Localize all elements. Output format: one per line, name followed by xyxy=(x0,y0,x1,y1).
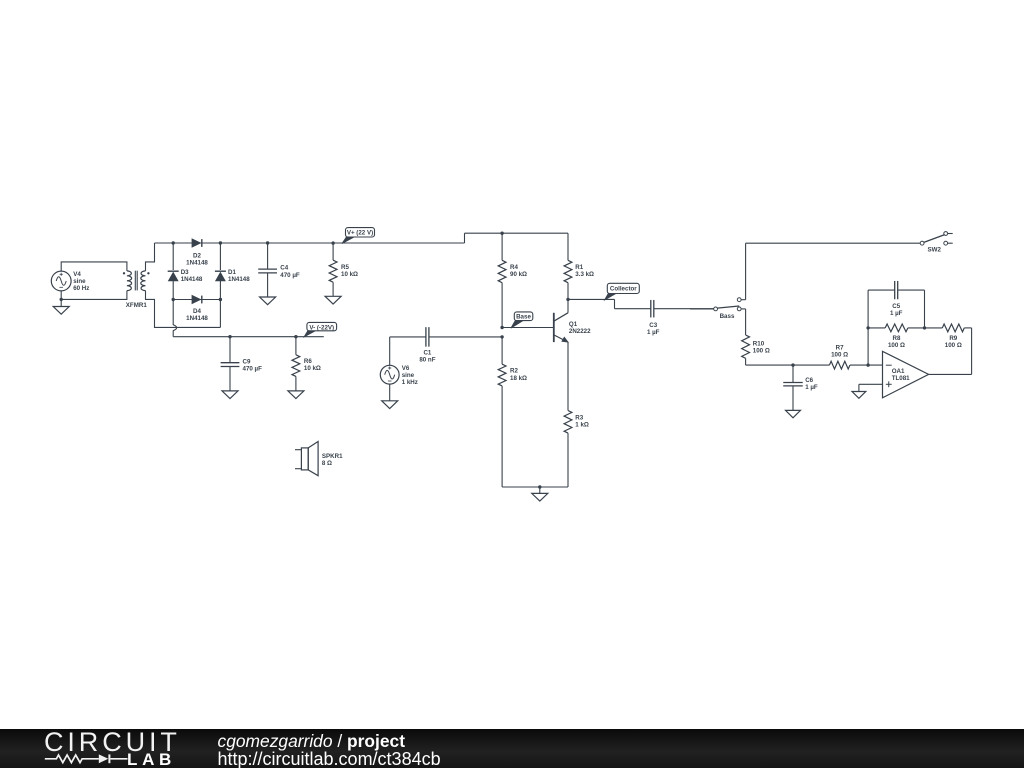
net flag Base xyxy=(511,312,533,328)
capacitor C6 1uF xyxy=(783,365,818,410)
junction dot collector node xyxy=(566,298,569,301)
svg-text:R8: R8 xyxy=(893,335,901,342)
svg-text:C5: C5 xyxy=(892,303,900,310)
svg-text:V6: V6 xyxy=(402,365,410,372)
svg-text:D4: D4 xyxy=(193,308,201,315)
svg-text:1 µF: 1 µF xyxy=(647,329,660,336)
svg-text:R10: R10 xyxy=(753,340,765,347)
svg-text:1 µF: 1 µF xyxy=(890,310,903,317)
svg-text:3.3 kΩ: 3.3 kΩ xyxy=(575,271,594,278)
svg-text:R7: R7 xyxy=(836,345,844,352)
svg-text:sine: sine xyxy=(402,372,415,379)
CircuitLab logo text xyxy=(44,727,181,758)
wire C3 to Bass switch xyxy=(654,308,714,310)
svg-text:XFMR1: XFMR1 xyxy=(126,302,148,309)
svg-text:R5: R5 xyxy=(341,264,349,271)
junction dot bottom ground node xyxy=(538,485,541,488)
capacitor C1 80nF xyxy=(419,327,435,364)
wire feedback vertical xyxy=(868,290,895,365)
wire transformer secondary bottom (line A) xyxy=(146,291,221,328)
junction dot rail-D1 branch xyxy=(219,241,222,244)
junction dot rail-R4 xyxy=(500,232,503,235)
wire D1 branch xyxy=(219,243,221,327)
svg-text:60 Hz: 60 Hz xyxy=(73,285,89,292)
svg-text:D2: D2 xyxy=(193,252,201,259)
ground at R5 xyxy=(325,296,341,304)
resistor R4 90k xyxy=(498,233,527,327)
wire Bass upper throw to SW2 xyxy=(746,243,921,300)
wire base row xyxy=(502,327,554,329)
svg-text:sine: sine xyxy=(73,278,86,285)
wire V- rail xyxy=(173,336,324,338)
wire V4 top to transformer primary xyxy=(61,262,127,271)
svg-text:R4: R4 xyxy=(510,264,518,271)
svg-text:1N4148: 1N4148 xyxy=(228,276,250,283)
wire transformer secondary top to V+ rail xyxy=(146,243,155,271)
junction dot V- rail C9 xyxy=(228,335,231,338)
wire R8 row xyxy=(868,327,885,329)
svg-text:V+ (22 V): V+ (22 V) xyxy=(347,230,373,237)
svg-text:V4: V4 xyxy=(73,271,81,278)
svg-text:10 kΩ: 10 kΩ xyxy=(341,271,358,278)
voltage source V6 xyxy=(380,365,418,386)
transistor Q1 2N2222 xyxy=(554,313,591,342)
ground at op-amp + input xyxy=(852,392,866,399)
resistor R7 100 xyxy=(829,345,882,369)
svg-text:1 kHz: 1 kHz xyxy=(402,379,418,386)
svg-text:Base: Base xyxy=(516,314,531,321)
svg-text:10 kΩ: 10 kΩ xyxy=(304,365,321,372)
svg-text:80 nF: 80 nF xyxy=(419,357,435,364)
svg-text:1 µF: 1 µF xyxy=(805,384,818,391)
username / project title xyxy=(218,731,406,752)
svg-text:SPKR1: SPKR1 xyxy=(322,453,343,460)
svg-text:18 kΩ: 18 kΩ xyxy=(510,375,527,382)
svg-text:1 kΩ: 1 kΩ xyxy=(575,422,589,429)
svg-text:R3: R3 xyxy=(575,414,583,421)
wire Q1 collector xyxy=(567,299,569,312)
resistor R8 100 xyxy=(885,324,942,349)
junction dot feedback-R8 xyxy=(866,326,869,329)
junction dot base-C1 xyxy=(500,335,503,338)
capacitor C5 1uF xyxy=(890,281,903,317)
diode D3 1N4148 xyxy=(168,269,203,283)
wire emitter bottom row xyxy=(502,486,568,488)
ground at R6 xyxy=(288,391,304,399)
svg-text:100 Ω: 100 Ω xyxy=(888,342,905,349)
wire C5 right to R8 node xyxy=(898,290,925,328)
diode D2 1N4148 xyxy=(186,239,208,266)
resistor R5 10k xyxy=(329,243,358,296)
resistor R9 100 xyxy=(942,324,971,349)
junction dot C6 tap xyxy=(791,363,794,366)
capacitor C3 1uF xyxy=(647,300,660,336)
wire R10 to R7 xyxy=(746,364,830,366)
junction dot R8-R9 node xyxy=(923,326,926,329)
capacitor C4 470uF xyxy=(258,243,300,297)
junction dot D4 row right xyxy=(219,298,222,301)
net flag V+ (22 V) xyxy=(342,228,375,244)
svg-text:D1: D1 xyxy=(228,269,236,276)
diode D1 1N4148 xyxy=(215,269,250,283)
svg-text:470 µF: 470 µF xyxy=(280,272,300,279)
svg-text:C6: C6 xyxy=(805,377,813,384)
junction dot rail-C4 xyxy=(266,241,269,244)
svg-text:D3: D3 xyxy=(181,269,189,276)
wire op-amp + input xyxy=(859,384,883,391)
diode D4 1N4148 xyxy=(186,296,208,323)
ground at V6 xyxy=(382,401,398,409)
junction dot rail-R5 xyxy=(331,241,334,244)
svg-text:100 Ω: 100 Ω xyxy=(831,352,848,359)
svg-text:470 µF: 470 µF xyxy=(243,366,263,373)
svg-text:1N4148: 1N4148 xyxy=(186,315,208,322)
svg-text:R6: R6 xyxy=(304,358,312,365)
resistor R3 1k xyxy=(564,411,589,488)
op-amp OA1 TL081 xyxy=(883,351,929,398)
wire V+ top rail xyxy=(155,233,569,243)
svg-text:SW2: SW2 xyxy=(927,246,941,253)
wire C1 to base branch xyxy=(429,336,502,338)
svg-text:C4: C4 xyxy=(280,265,288,272)
speaker SPKR1 8 ohm xyxy=(295,442,343,476)
junction dot base-R4 xyxy=(500,326,503,329)
svg-text:Collector: Collector xyxy=(610,286,637,293)
ground at C6 xyxy=(786,410,801,417)
junction dot V- rail R6 xyxy=(294,335,297,338)
logo resistor-diode icon xyxy=(0,729,220,768)
svg-text:100 Ω: 100 Ω xyxy=(945,342,962,349)
svg-text:Bass: Bass xyxy=(720,313,735,320)
wire V4 bottom to transformer primary xyxy=(61,291,127,300)
switch Bass (SPDT) xyxy=(690,298,746,320)
svg-text:Q1: Q1 xyxy=(569,321,578,328)
ground at C4 xyxy=(260,297,276,305)
svg-text:1N4148: 1N4148 xyxy=(186,259,208,266)
svg-text:OA1: OA1 xyxy=(892,368,905,375)
junction dot rail-D3 branch xyxy=(172,241,175,244)
svg-text:C3: C3 xyxy=(649,322,657,329)
net flag Collector xyxy=(605,283,640,300)
ground at Q1 emitter node xyxy=(532,487,548,501)
svg-text:R1: R1 xyxy=(575,264,583,271)
junction dot inverting input node xyxy=(866,363,869,366)
svg-text:C9: C9 xyxy=(243,359,251,366)
wire D3 branch xyxy=(173,243,177,337)
wire R9 to output xyxy=(971,328,973,375)
wire V6 to ground xyxy=(389,384,391,401)
svg-text:V- (-22V): V- (-22V) xyxy=(309,324,334,331)
transformer XFMR1 xyxy=(123,271,150,310)
junction dot V4 ground node xyxy=(60,298,63,301)
svg-text:8 Ω: 8 Ω xyxy=(322,460,332,467)
switch SW2 (SPDT) xyxy=(920,232,953,254)
resistor R1 3.3k xyxy=(564,233,594,299)
ground at C9 xyxy=(222,391,238,399)
svg-text:R9: R9 xyxy=(949,335,957,342)
wire Q1 emitter xyxy=(567,342,569,410)
resistor R6 10k xyxy=(292,337,321,391)
resistor R10 100 xyxy=(742,335,770,365)
wire Bass lower throw to R10 xyxy=(745,309,747,335)
capacitor C9 470uF xyxy=(221,337,263,391)
net flag V- (-22V) xyxy=(304,322,337,337)
ground at V4 xyxy=(53,299,69,314)
project url xyxy=(218,749,441,768)
wire V6 to C1 xyxy=(390,337,426,365)
wire collector to C3 xyxy=(568,299,651,308)
voltage source V4 xyxy=(51,271,89,292)
resistor R2 18k xyxy=(498,337,527,487)
svg-text:90 kΩ: 90 kΩ xyxy=(510,271,527,278)
wire op-amp output xyxy=(929,373,972,375)
svg-text:TL081: TL081 xyxy=(892,375,910,382)
wire D4 row xyxy=(173,299,220,301)
svg-text:2N2222: 2N2222 xyxy=(569,328,591,335)
svg-text:100 Ω: 100 Ω xyxy=(753,347,770,354)
svg-text:C1: C1 xyxy=(423,350,431,357)
svg-text:1N4148: 1N4148 xyxy=(181,276,203,283)
junction dot D4 row left xyxy=(172,298,175,301)
svg-text:R2: R2 xyxy=(510,368,518,375)
